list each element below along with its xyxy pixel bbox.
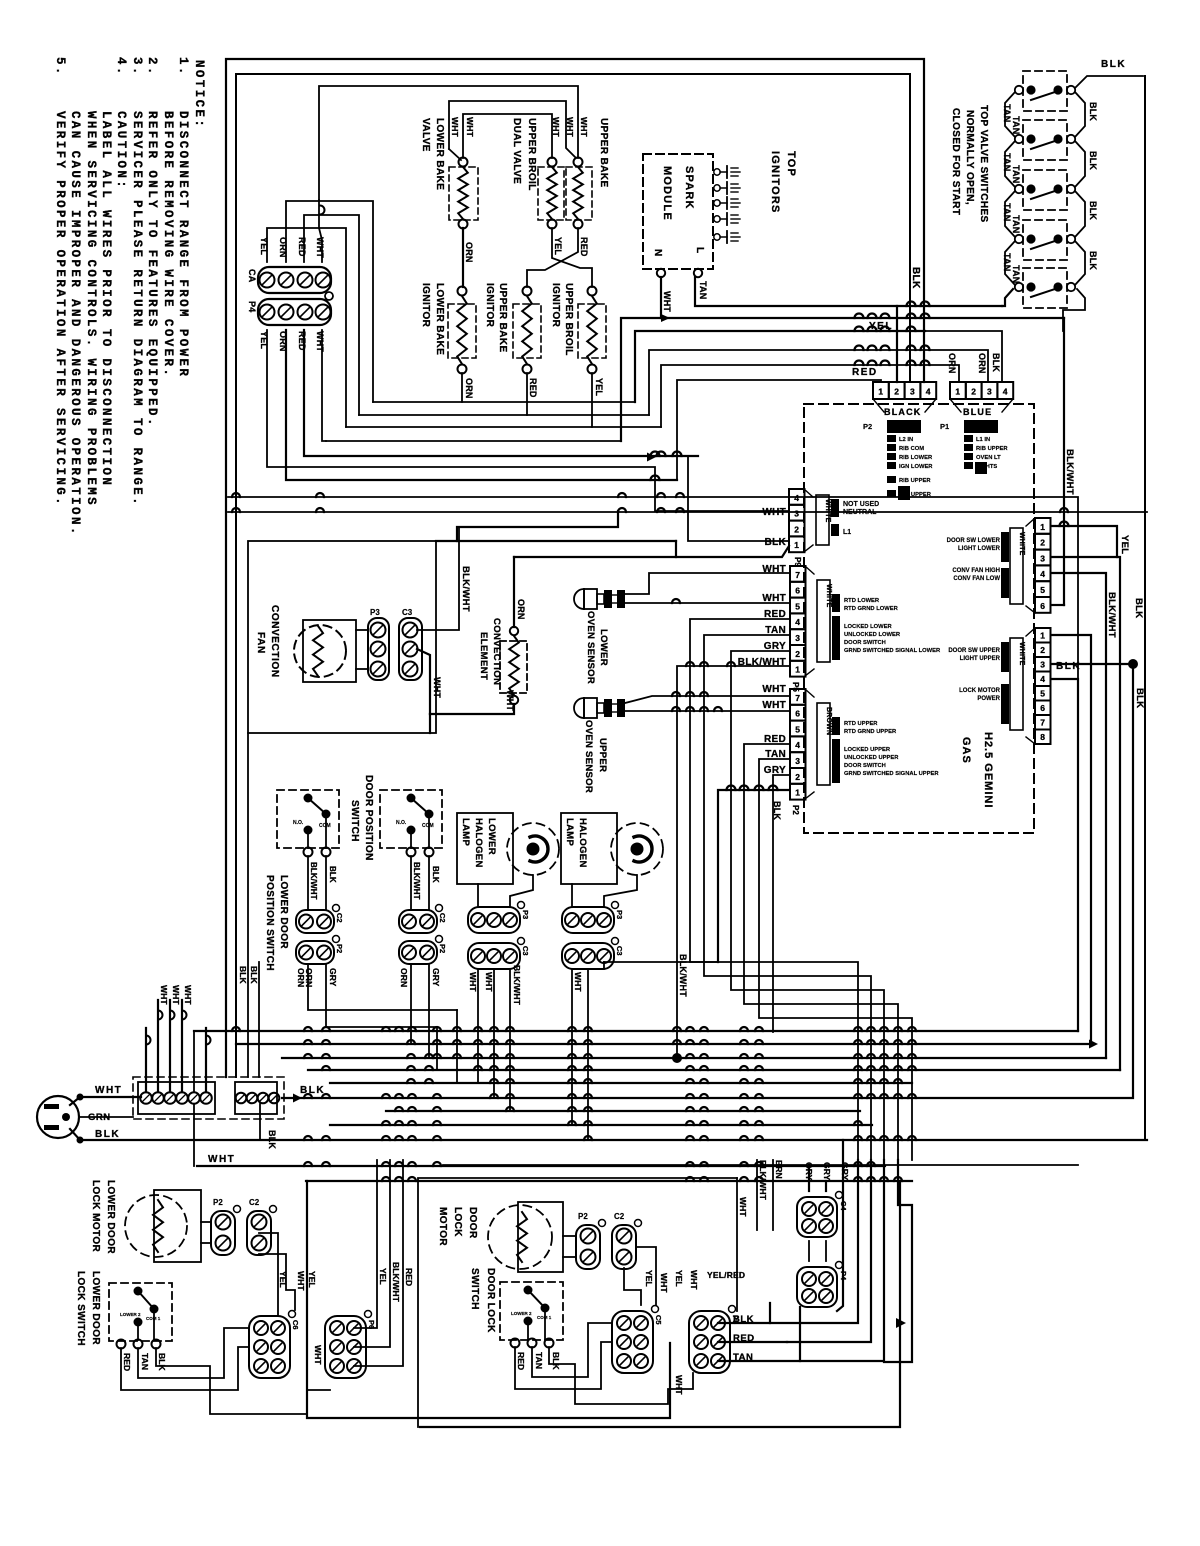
wire BLK switch feed to right bus [1075, 76, 1143, 88]
svg-text:RED: RED [297, 237, 307, 257]
svg-text:YEL: YEL [553, 237, 563, 255]
note BLUE pin functions [964, 435, 1008, 474]
board control board outline [804, 404, 1034, 833]
svg-text:LAMP: LAMP [564, 818, 575, 846]
wire bus y331 left from ignitor riser [635, 331, 925, 402]
svg-text:RTD UPPER: RTD UPPER [844, 721, 878, 727]
wire YEL upper broil valve to ignitor [552, 228, 592, 287]
svg-text:BLK/WHT: BLK/WHT [678, 954, 688, 997]
connector P4 [247, 292, 333, 325]
svg-text:1.: 1. [176, 57, 190, 77]
svg-text:RTD LOWER: RTD LOWER [844, 598, 880, 604]
wires lower lock motor to P2 [201, 1221, 211, 1223]
svg-text:WHT: WHT [313, 1345, 323, 1365]
svg-text:LOWER BAKE: LOWER BAKE [434, 283, 445, 355]
svg-text:GRND SWITCHED SIGNAL LOWER: GRND SWITCHED SIGNAL LOWER [844, 648, 941, 654]
svg-text:ORN: ORN [464, 378, 474, 399]
box door lock section outline [418, 1178, 737, 1427]
wire P8 pin4 RED [744, 744, 898, 1160]
wires lower lock switch to C6 [121, 1347, 249, 1390]
wire TAN chain segment [1005, 241, 1015, 285]
svg-text:TAN: TAN [1011, 215, 1021, 233]
wires halogen C3 down [571, 969, 573, 1125]
svg-text:BLK/WHT: BLK/WHT [391, 1262, 401, 1303]
svg-text:ORN: ORN [304, 968, 314, 987]
svg-text:COM 1: COM 1 [146, 1316, 161, 1321]
wire valve loop outer [319, 86, 578, 200]
wire TAN chain segment [1005, 141, 1015, 187]
switch LOWER DOOR POSITION SWITCH [264, 790, 339, 971]
svg-text:BLK: BLK [1101, 59, 1126, 70]
svg-text:L1: L1 [843, 529, 851, 536]
wire BLK chain segment [1075, 191, 1085, 237]
svg-text:GRND SWITCHED SIGNAL UPPER: GRND SWITCHED SIGNAL UPPER [844, 771, 939, 777]
svg-text:BLK: BLK [551, 1352, 561, 1371]
svg-text:BLK: BLK [765, 537, 787, 548]
svg-text:P2: P2 [578, 1212, 588, 1221]
wire TAN chain segment [1005, 191, 1015, 237]
connector P6 lower door lock [325, 1311, 376, 1379]
wire BLK terminal to bus [282, 1097, 326, 1099]
svg-text:ORN: ORN [977, 353, 987, 374]
junction arrow WHT on bus [661, 314, 670, 322]
svg-text:1: 1 [1040, 522, 1045, 532]
module SPARK MODULE [643, 154, 713, 277]
svg-text:RIB UPPER: RIB UPPER [976, 446, 1008, 452]
svg-text:2: 2 [1040, 538, 1045, 548]
svg-text:TAN: TAN [1011, 265, 1021, 283]
wire bus y441 [326, 440, 621, 442]
svg-text:C2: C2 [249, 1198, 260, 1207]
svg-text:2: 2 [795, 772, 800, 782]
connector P5 door lock [689, 1306, 740, 1374]
svg-text:WHT: WHT [762, 700, 786, 711]
wire RED ignitor2 bottom [359, 373, 527, 415]
svg-text:GRY: GRY [431, 968, 441, 987]
svg-text:CONV FAN HIGH: CONV FAN HIGH [952, 568, 1000, 574]
svg-text:P2: P2 [438, 944, 447, 953]
svg-text:BLK: BLK [328, 866, 337, 883]
svg-text:BLK/WHT: BLK/WHT [460, 566, 471, 612]
svg-text:TAN: TAN [733, 1352, 753, 1363]
wire bus y1181 [306, 1180, 912, 1182]
wire upper sensor to P8 pin6 [625, 710, 789, 712]
plug power cord [37, 1096, 79, 1138]
wire lower door position P2 ORN [308, 964, 457, 1010]
connector C5 door lock [612, 1306, 663, 1374]
svg-text:6: 6 [1040, 601, 1045, 611]
svg-text:4: 4 [1040, 674, 1045, 684]
connector P3 halogen [562, 902, 624, 934]
wire stair from y1010 [456, 1010, 458, 1083]
wire bus y1044 [236, 1043, 1091, 1045]
wire bus y527 stub [457, 511, 618, 541]
svg-text:LOCK SWITCH: LOCK SWITCH [75, 1271, 86, 1346]
svg-text:VERIFY PROPER OPERATION AFTER: VERIFY PROPER OPERATION AFTER SERVICING. [53, 111, 67, 507]
svg-text:BLK/WHT: BLK/WHT [412, 862, 421, 900]
wire section top y1165 [443, 1164, 1078, 1166]
wire bus y1139 BLK [80, 1139, 1147, 1141]
wire BLK vertical from dot [1132, 664, 1134, 1096]
wires WHT into terminal block [157, 1000, 159, 1092]
connector P2 lower door lock [211, 1198, 241, 1255]
wire BLK chain segment [1075, 141, 1085, 187]
svg-text:6: 6 [1040, 703, 1045, 713]
svg-text:COM: COM [422, 823, 434, 829]
wire P7 pin1 BLK/WHT [677, 666, 789, 1058]
wire y557 continue to P9 [676, 546, 789, 557]
svg-text:BLK/WHT: BLK/WHT [1106, 592, 1117, 638]
svg-text:2: 2 [894, 387, 899, 397]
svg-text:REFER ONLY TO FEATURES EQUIPPE: REFER ONLY TO FEATURES EQUIPPED. [145, 111, 159, 428]
svg-text:BEFORE REMOVING WIRE COVER.: BEFORE REMOVING WIRE COVER. [161, 111, 175, 378]
svg-text:6: 6 [795, 709, 800, 719]
wire ignitor bus risers right [462, 401, 635, 403]
svg-text:C2: C2 [614, 1212, 625, 1221]
svg-text:OVEN SENSOR: OVEN SENSOR [583, 720, 594, 793]
wire fan C3 pin2 WHT down [417, 649, 430, 714]
svg-text:2.: 2. [145, 57, 159, 77]
svg-text:CONV FAN LOW: CONV FAN LOW [953, 576, 1000, 582]
wire TAN chain segment [1005, 92, 1015, 137]
wire P8 pin2 GRY [773, 775, 789, 1032]
svg-text:3: 3 [794, 509, 799, 519]
svg-text:TAN: TAN [1002, 153, 1012, 171]
svg-text:LABEL ALL WIRES PRIOR TO DISCO: LABEL ALL WIRES PRIOR TO DISCONNECTION [99, 111, 113, 487]
wire 6pin pin6 [1051, 604, 1064, 606]
svg-text:GRN: GRN [88, 1112, 111, 1123]
svg-text:WHT: WHT [465, 117, 475, 138]
svg-text:FAN: FAN [255, 632, 266, 654]
wire BLK chain segment [1075, 92, 1085, 137]
svg-text:LOWER: LOWER [486, 818, 497, 855]
connector P8 7-pin upper oven [790, 689, 939, 815]
junction dot right [1128, 659, 1138, 669]
wire halogen lamp to P3 [571, 884, 573, 907]
svg-text:DOOR SW UPPER: DOOR SW UPPER [948, 648, 1000, 654]
wire P6 WHT loop bottom [307, 1181, 670, 1418]
sensor UPPER OVEN SENSOR [574, 698, 625, 793]
svg-text:LOCKED LOWER: LOCKED LOWER [844, 624, 892, 630]
svg-text:ORN: ORN [399, 968, 409, 987]
wire P7 pin4 RED [690, 619, 858, 1160]
svg-text:UNLOCKED UPPER: UNLOCKED UPPER [844, 755, 899, 761]
svg-text:BROWN: BROWN [825, 707, 832, 735]
svg-text:ORN: ORN [947, 353, 957, 374]
connector P2 door position [399, 936, 447, 965]
svg-text:VALVE: VALVE [420, 118, 431, 152]
svg-text:UPPER BROIL: UPPER BROIL [563, 283, 574, 356]
svg-text:BLK: BLK [300, 1085, 325, 1096]
svg-text:BLK: BLK [238, 966, 248, 985]
connector P1 BLUE header [940, 382, 1013, 433]
wire YEL ignitor3 bottom [346, 373, 592, 427]
svg-text:OVEN LT: OVEN LT [976, 455, 1001, 461]
wire CA pin4 WHT from valve loop [319, 200, 322, 262]
svg-text:ORN: ORN [516, 599, 526, 620]
svg-text:DISCONNECT RANGE FROM POWER: DISCONNECT RANGE FROM POWER [176, 111, 190, 378]
wire valve loop mid [449, 101, 576, 158]
svg-text:WHT: WHT [296, 1271, 306, 1291]
svg-text:LIGHT LOWER: LIGHT LOWER [958, 546, 1001, 552]
svg-text:2: 2 [971, 387, 976, 397]
wire 6pin pin3 YEL riser [1051, 557, 1120, 1070]
svg-text:4.: 4. [114, 57, 128, 77]
svg-text:RED: RED [404, 1268, 414, 1286]
ignitor UPPER BROIL IGNITOR [550, 283, 606, 374]
svg-text:MODULE: MODULE [661, 166, 673, 221]
svg-text:BLK: BLK [157, 1353, 167, 1372]
lamp LOWER HALOGEN LAMP [457, 813, 559, 884]
connector P6 8-pin right [948, 628, 1050, 744]
svg-text:YEL: YEL [594, 378, 604, 396]
wires P6 right side [354, 1160, 377, 1328]
wires P5 right side BLK RED TAN [718, 1303, 770, 1323]
connector P5 6-pin right [947, 518, 1051, 613]
svg-text:WHT: WHT [762, 684, 786, 695]
svg-text:TAN: TAN [1002, 203, 1012, 221]
svg-text:BLK: BLK [1056, 661, 1081, 672]
svg-text:UPPER BAKE: UPPER BAKE [598, 118, 609, 188]
svg-text:LOWER DOOR: LOWER DOOR [278, 875, 289, 949]
svg-text:HALOGEN: HALOGEN [577, 818, 588, 868]
connector C2 door position [399, 905, 447, 934]
svg-text:IGNITOR: IGNITOR [420, 283, 431, 328]
svg-text:LOWER: LOWER [598, 629, 609, 666]
svg-text:BLK/WHT: BLK/WHT [758, 1160, 768, 1201]
svg-text:SERVICER PLEASE RETURN DIAGRAM: SERVICER PLEASE RETURN DIAGRAM TO RANGE. [130, 111, 144, 507]
svg-text:BLK: BLK [1088, 251, 1098, 270]
valve LOWER BAKE VALVE [420, 118, 478, 229]
svg-text:YEL: YEL [674, 1270, 684, 1287]
svg-text:BLK: BLK [249, 966, 259, 985]
svg-text:5.: 5. [53, 57, 67, 77]
svg-text:CONVECTION: CONVECTION [269, 605, 280, 678]
svg-text:L2 IN: L2 IN [899, 437, 913, 443]
svg-text:RED: RED [122, 1353, 132, 1371]
svg-text:NOTICE:: NOTICE: [192, 60, 206, 129]
wires BRN BLK/WHT verticals [756, 1160, 758, 1230]
svg-text:WHITE: WHITE [824, 499, 831, 523]
wire P7 pin3 TAN [704, 635, 871, 1160]
svg-text:SWITCH: SWITCH [349, 800, 360, 842]
svg-text:C3: C3 [402, 608, 413, 617]
svg-text:LOCKED UPPER: LOCKED UPPER [844, 747, 891, 753]
motor LOWER DOOR LOCK MOTOR [90, 1180, 201, 1262]
wires door lock switch to C5 [515, 1342, 612, 1389]
wire fan C3 pin1 to BLK/WHT riser [417, 541, 459, 630]
svg-text:P2: P2 [863, 422, 872, 431]
svg-text:UNLOCKED LOWER: UNLOCKED LOWER [844, 632, 901, 638]
svg-text:RTD GRND LOWER: RTD GRND LOWER [844, 606, 899, 612]
svg-text:UPPER: UPPER [597, 738, 608, 772]
svg-text:YEL: YEL [869, 321, 893, 332]
svg-text:4: 4 [795, 617, 800, 627]
wire valve loop inner [463, 114, 552, 158]
svg-text:1: 1 [794, 540, 799, 550]
wires door lock C2 to C5 [624, 1268, 641, 1305]
svg-text:IGNITOR: IGNITOR [550, 283, 561, 328]
wire 8pin pin4 riser [1051, 679, 1078, 1031]
svg-text:3: 3 [987, 387, 992, 397]
svg-text:4: 4 [794, 493, 799, 503]
svg-text:TAN: TAN [140, 1353, 150, 1370]
svg-text:C2: C2 [438, 913, 447, 923]
svg-text:6: 6 [795, 586, 800, 596]
svg-text:C2: C2 [335, 913, 344, 923]
svg-text:TAN: TAN [1011, 165, 1021, 183]
svg-text:H2.5 GEMINI: H2.5 GEMINI [982, 732, 994, 808]
connector C2 door lock [612, 1212, 642, 1269]
svg-text:3: 3 [1040, 553, 1045, 563]
svg-text:YEL: YEL [378, 1268, 388, 1285]
wires door lock motor to P2 [563, 1235, 576, 1237]
wire ORN ignitor1 bottom [373, 373, 462, 402]
switch top-valve SW5 [1015, 268, 1075, 308]
svg-text:GRY: GRY [822, 1162, 832, 1181]
wire P8 pin3 TAN [759, 759, 912, 1160]
connector P4 lower [797, 1262, 848, 1308]
svg-text:BLK: BLK [1134, 688, 1145, 708]
wire WHT terminal down to bus [193, 1104, 195, 1166]
wire door position P2 ORN [410, 964, 412, 1044]
wire TAN from SW5 joins [1002, 289, 1013, 306]
svg-text:POSITION SWITCH: POSITION SWITCH [264, 875, 275, 971]
svg-text:WHEN SERVICING CONTROLS. WIRIN: WHEN SERVICING CONTROLS. WIRING PROBLEMS [84, 111, 98, 507]
valve UPPER BROIL (dual) [511, 118, 564, 229]
svg-text:BLACK: BLACK [884, 407, 922, 417]
wire bus y331 YEL [925, 331, 1002, 382]
wires lower door position switch to C2 [307, 856, 309, 910]
wire bus y1125 [330, 1124, 872, 1126]
connector C3 lower halogen [468, 938, 530, 970]
wires into C4 from above [808, 1165, 810, 1191]
wire lower door position P2 GRY [326, 964, 437, 1027]
svg-text:BRN: BRN [774, 1160, 784, 1179]
svg-text:NEUTRAL: NEUTRAL [843, 509, 877, 516]
wire riser BLK/WHT to bus [458, 527, 460, 541]
svg-text:WHT: WHT [738, 1197, 748, 1217]
svg-text:N.O.: N.O. [293, 820, 304, 826]
switch DOOR LOCK SWITCH [469, 1268, 563, 1348]
wire GRN from cord [79, 1116, 133, 1118]
svg-text:BLK: BLK [1133, 598, 1144, 618]
svg-text:P1: P1 [940, 422, 949, 431]
wire P4 pin2 down [286, 330, 677, 480]
svg-text:P3: P3 [521, 910, 530, 919]
switch top-valve SW2 [1015, 120, 1075, 160]
wire lower sensor to P7 pin7 [625, 573, 789, 594]
switch top-valve SW4 [1015, 220, 1075, 260]
connector P3 lower halogen [468, 902, 530, 934]
svg-text:UPPER BROIL: UPPER BROIL [526, 118, 537, 191]
switch DOOR POSITION SWITCH [349, 775, 442, 861]
svg-text:N.O.: N.O. [396, 820, 407, 826]
svg-text:TAN: TAN [534, 1352, 544, 1369]
wire bus y1058 [282, 1057, 1106, 1059]
connector C2 lower door lock [247, 1198, 277, 1255]
connector C6 lower door lock [249, 1311, 300, 1379]
svg-text:1: 1 [955, 387, 960, 397]
svg-text:TAN: TAN [698, 281, 708, 299]
svg-text:BLK: BLK [733, 1314, 754, 1325]
svg-text:WHT: WHT [659, 1273, 669, 1293]
svg-text:UPPER BAKE: UPPER BAKE [497, 283, 508, 353]
svg-text:CAN CAUSE IMPROPER AND DANGERO: CAN CAUSE IMPROPER AND DANGEROUS OPERATI… [68, 111, 82, 537]
ignitor LOWER BAKE IGNITOR [420, 283, 476, 374]
svg-text:P2: P2 [335, 944, 344, 953]
svg-text:BLK: BLK [431, 866, 440, 883]
connector C3 fan [399, 608, 422, 680]
wire bus y1097 BLK [282, 1097, 1133, 1099]
wire bus y1070 [308, 1069, 1120, 1071]
note text NOTICE block [53, 57, 206, 537]
svg-text:7: 7 [1040, 718, 1045, 728]
svg-text:L1 IN: L1 IN [976, 437, 990, 443]
terminal block left [138, 1082, 215, 1114]
wire upper sensor to P8 pin7 [625, 696, 789, 703]
svg-text:TOP VALVE SWITCHES: TOP VALVE SWITCHES [978, 105, 989, 223]
svg-text:WHT: WHT [579, 117, 589, 138]
wire BLK to P9 pin1 [688, 456, 789, 541]
connector P2 door lock [576, 1212, 606, 1269]
wire P4 pin3 down [304, 330, 698, 456]
svg-text:5: 5 [1040, 689, 1045, 699]
svg-text:DUAL VALVE: DUAL VALVE [511, 118, 522, 184]
svg-text:LOWER DOOR: LOWER DOOR [105, 1180, 116, 1254]
svg-text:SPARK: SPARK [683, 166, 695, 210]
svg-text:YEL/RED: YEL/RED [707, 1270, 745, 1280]
svg-text:2: 2 [794, 524, 799, 534]
svg-text:WHITE: WHITE [1018, 642, 1025, 666]
svg-text:RED: RED [852, 367, 878, 378]
svg-text:L: L [694, 247, 705, 253]
svg-text:BLK: BLK [267, 1130, 277, 1149]
svg-text:5: 5 [795, 601, 800, 611]
lamp HALOGEN LAMP upper [561, 813, 663, 884]
wire bus y497 [228, 497, 1078, 1031]
wires BLK BLK verticals left [247, 733, 249, 1077]
svg-text:7: 7 [795, 570, 800, 580]
svg-text:5: 5 [1040, 585, 1045, 595]
svg-text:ORN: ORN [464, 242, 474, 263]
svg-text:WHT: WHT [315, 237, 325, 258]
wire P8 pin1 riser to bus [718, 790, 789, 962]
connector P3 fan [368, 608, 389, 680]
svg-text:DOOR LOCK: DOOR LOCK [485, 1268, 496, 1333]
svg-text:4: 4 [926, 387, 931, 397]
svg-text:C5: C5 [654, 1315, 663, 1325]
svg-text:3: 3 [795, 633, 800, 643]
wire P4 pin1 down [267, 330, 789, 511]
svg-text:WHT: WHT [565, 117, 575, 138]
svg-text:3.: 3. [130, 57, 144, 77]
svg-text:NORMALLY OPEN,: NORMALLY OPEN, [964, 110, 975, 205]
wire BLK chain segment [1075, 241, 1085, 285]
svg-text:WHT: WHT [171, 985, 181, 1005]
svg-text:DOOR SW LOWER: DOOR SW LOWER [947, 538, 1001, 544]
svg-text:BLK/WHT: BLK/WHT [1064, 449, 1075, 495]
svg-text:C3: C3 [521, 946, 530, 956]
svg-text:WHITE: WHITE [1018, 532, 1025, 556]
wire bus y962 [604, 961, 718, 963]
svg-text:2: 2 [795, 649, 800, 659]
wire fan motor to P3 [356, 629, 368, 631]
svg-text:C6: C6 [291, 1320, 300, 1330]
junction arrows [647, 453, 656, 462]
svg-text:BLK: BLK [1088, 102, 1098, 121]
svg-text:4: 4 [1040, 569, 1045, 579]
